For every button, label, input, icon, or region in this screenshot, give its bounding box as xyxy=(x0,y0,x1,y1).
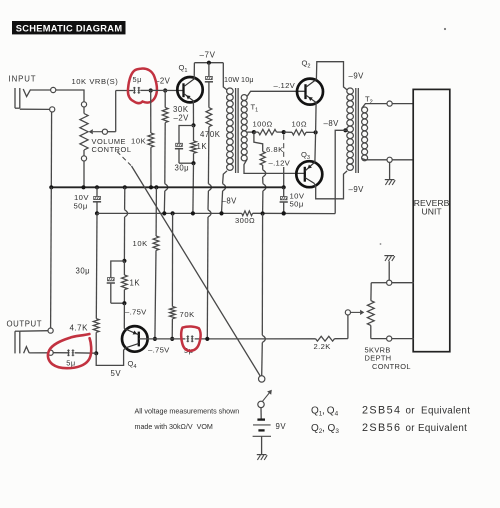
red annotation circle 2 xyxy=(48,334,91,368)
capacitor 5u output xyxy=(53,349,96,367)
svg-text:–9V: –9V xyxy=(349,71,365,80)
svg-text:30μ: 30μ xyxy=(76,266,91,275)
transistor Q1 xyxy=(177,63,202,102)
svg-text:–9V: –9V xyxy=(349,185,365,194)
resistor 70K xyxy=(170,213,195,341)
switch S1 arm xyxy=(258,390,272,408)
svg-text:6.8K: 6.8K xyxy=(266,145,284,154)
note transistor equivalents line 1 xyxy=(311,405,470,418)
wire Q3 collector to T2 primary bottom xyxy=(314,171,347,199)
wire Q4 base line xyxy=(139,337,316,341)
resistor 10 ohm xyxy=(284,119,318,135)
svg-text:5V: 5V xyxy=(111,369,122,378)
svg-text:300Ω: 300Ω xyxy=(235,216,255,225)
ground at T2 secondary xyxy=(385,163,395,186)
wire input sleeve to ground bus xyxy=(50,112,52,187)
resistor 4.7K xyxy=(70,319,100,356)
svg-text:10Ω: 10Ω xyxy=(292,119,307,128)
-7V supply rail xyxy=(194,51,223,65)
svg-text:INPUT: INPUT xyxy=(9,75,37,84)
node T1 center tap xyxy=(252,130,256,134)
svg-text:or Equivalent: or Equivalent xyxy=(406,423,468,434)
red annotation circle 3 xyxy=(181,326,200,350)
transformer T1 primary xyxy=(222,63,234,214)
svg-text:1K: 1K xyxy=(197,142,208,151)
volume control potentiometer VR1 10K VRB(S) xyxy=(72,77,132,187)
node Q1 base wire xyxy=(148,88,184,92)
svg-text:50μ: 50μ xyxy=(290,200,304,209)
input jack J1 xyxy=(9,75,37,109)
wire to Q4 emitter xyxy=(124,303,147,328)
capacitor 30u Q4 bypass xyxy=(76,261,125,303)
diagonal link wire to switch xyxy=(132,166,261,376)
wire input tip to volume pot xyxy=(31,90,84,102)
svg-text:–.75V: –.75V xyxy=(125,307,147,316)
svg-text:70K: 70K xyxy=(180,310,195,319)
svg-text:10K VRB(S): 10K VRB(S) xyxy=(72,77,119,86)
svg-text:UNIT: UNIT xyxy=(421,206,442,216)
transformer T2 primary xyxy=(347,71,364,194)
svg-text:CONTROL: CONTROL xyxy=(92,145,132,154)
resistor 6.8K xyxy=(254,132,284,213)
wire ground bus to Q4 emitter network xyxy=(122,187,127,263)
ground at depth control xyxy=(384,256,394,281)
wire supply to 4.7K xyxy=(95,213,98,318)
svg-text:–.12V: –.12V xyxy=(274,81,296,90)
dashed link from volume control xyxy=(117,152,131,166)
ground at battery xyxy=(257,455,267,460)
terminal depth bottom xyxy=(387,336,414,341)
transformer T1 secondary xyxy=(241,91,305,173)
depth control wiper xyxy=(345,310,364,339)
svg-text:470K: 470K xyxy=(200,130,221,139)
svg-text:CONTROL: CONTROL xyxy=(372,362,411,371)
capacitor 10V/50u decoupling left xyxy=(74,187,102,215)
svg-text:2SB54: 2SB54 xyxy=(362,405,401,417)
svg-text:made with 30kΩ/V VOM: made with 30kΩ/V VOM xyxy=(135,423,213,431)
supply bus wire with 300 ohm resistor xyxy=(97,197,335,225)
svg-text:30K: 30K xyxy=(173,105,189,114)
speck xyxy=(380,28,447,245)
input tip terminal xyxy=(51,87,56,92)
svg-text:–.12V: –.12V xyxy=(269,158,291,167)
svg-text:or Equivalent: or Equivalent xyxy=(406,406,471,417)
input sleeve terminal xyxy=(20,107,55,112)
transistor Q2 xyxy=(274,59,324,105)
output top terminal xyxy=(20,328,53,333)
resistor 10K base bias xyxy=(131,91,154,188)
svg-text:5μ: 5μ xyxy=(133,75,142,84)
wire 6.8K node to switch xyxy=(262,214,266,376)
svg-text:10K: 10K xyxy=(131,137,146,146)
svg-text:10K: 10K xyxy=(133,239,148,248)
svg-text:2.2K: 2.2K xyxy=(314,342,331,351)
svg-text:5μ: 5μ xyxy=(66,358,75,367)
transistor Q3 xyxy=(296,150,322,187)
svg-text:–8V: –8V xyxy=(222,197,238,206)
title bar SCHEMATIC DIAGRAM xyxy=(12,21,126,34)
resistor 1K Q4 emitter xyxy=(122,261,141,305)
resistor 1K emitter xyxy=(191,125,208,213)
capacitor 10W/10u xyxy=(205,63,254,84)
ground bus wire xyxy=(49,185,284,189)
resistor 30K xyxy=(162,91,189,214)
transformer T1 core xyxy=(236,88,239,173)
volume pot wiper xyxy=(89,91,116,135)
output jack J2 xyxy=(7,320,43,354)
svg-text:OUTPUT: OUTPUT xyxy=(7,320,43,329)
capacitor 10V/50u decoupling right xyxy=(280,185,305,215)
depth control potentiometer 5K VRB xyxy=(365,283,411,371)
wire Q3 emitter xyxy=(314,132,317,162)
svg-text:SCHEMATIC DIAGRAM: SCHEMATIC DIAGRAM xyxy=(16,24,123,34)
svg-text:All voltage measurements shown: All voltage measurements shown xyxy=(135,407,240,415)
note transistor equivalents line 2 xyxy=(311,422,467,435)
note voltage measurements xyxy=(135,407,240,431)
terminal T2 secondary top xyxy=(387,101,414,106)
svg-text:4.7K: 4.7K xyxy=(70,323,89,332)
svg-text:50μ: 50μ xyxy=(74,201,88,210)
output tip terminal xyxy=(29,350,53,355)
red annotation circle 1 xyxy=(128,69,157,104)
transformer T2 secondary xyxy=(362,95,387,161)
transistor Q4 xyxy=(122,326,170,370)
svg-text:2SB56: 2SB56 xyxy=(362,422,401,434)
svg-text:–7V: –7V xyxy=(200,51,216,60)
svg-text:30μ: 30μ xyxy=(175,164,190,173)
terminal T2 secondary bottom xyxy=(387,157,414,162)
capacitor 5u input coupling xyxy=(116,75,171,94)
svg-text:10W 10μ: 10W 10μ xyxy=(224,75,254,84)
resistor 10K lower xyxy=(133,187,159,341)
wire Q2 collector to T2 primary top xyxy=(316,62,347,90)
resistor 470K xyxy=(200,82,221,339)
wire Q2 emitter xyxy=(315,103,318,133)
transformer T2 center tap xyxy=(324,119,349,214)
dashed line -.12V measurement xyxy=(269,135,291,188)
reverb unit box xyxy=(413,89,450,351)
wire Q4 collector to output node xyxy=(96,348,125,378)
capacitor 5u Q4 base xyxy=(184,335,194,354)
resistor 2.2K xyxy=(314,336,348,351)
svg-text:100Ω: 100Ω xyxy=(253,119,273,128)
wire Q1 emitter xyxy=(191,101,195,128)
svg-text:–.75V: –.75V xyxy=(148,346,170,355)
svg-text:–8V: –8V xyxy=(324,119,340,128)
resistor 100 ohm xyxy=(253,119,286,135)
switch S1 fixed contact xyxy=(259,376,265,382)
battery 9V xyxy=(253,408,287,455)
wire Q1 collector to -7V rail xyxy=(193,63,195,79)
wire ground bus to output xyxy=(50,187,53,328)
terminal depth top xyxy=(387,280,414,285)
svg-text:–2V: –2V xyxy=(174,114,190,123)
capacitor 30u emitter bypass xyxy=(175,126,194,173)
svg-text:1K: 1K xyxy=(130,279,141,288)
svg-text:9V: 9V xyxy=(276,422,287,431)
